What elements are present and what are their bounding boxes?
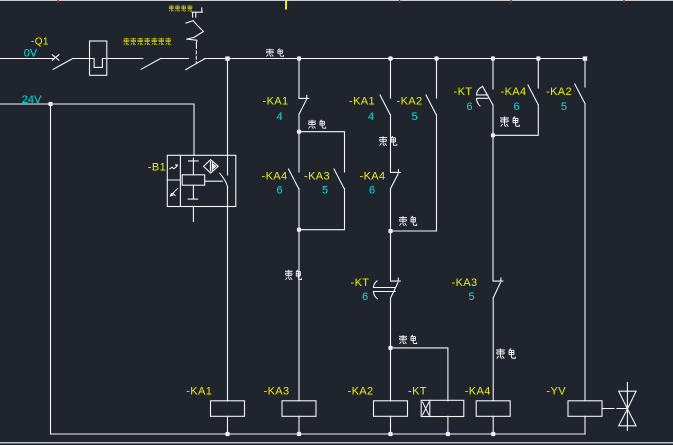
svg-text:-KT: -KT [351, 277, 370, 289]
svg-text:-KA2: -KA2 [546, 86, 572, 98]
svg-text:-B1: -B1 [148, 161, 166, 173]
svg-text:-KA1: -KA1 [186, 385, 212, 397]
svg-text:5: 5 [412, 111, 418, 123]
svg-text:4: 4 [277, 111, 283, 123]
svg-text:-KA3: -KA3 [264, 385, 290, 397]
svg-text:-KA1: -KA1 [263, 96, 289, 108]
svg-text:-KA4: -KA4 [262, 171, 288, 183]
svg-text:24V: 24V [22, 94, 42, 106]
svg-text:6: 6 [514, 101, 520, 113]
svg-text:6: 6 [362, 291, 368, 303]
svg-text:-KA2: -KA2 [348, 385, 374, 397]
svg-text:-KA4: -KA4 [465, 385, 491, 397]
svg-text:4: 4 [368, 111, 374, 123]
svg-text:-KA2: -KA2 [397, 96, 423, 108]
svg-text:-KT: -KT [408, 385, 427, 397]
svg-text:-YV: -YV [546, 385, 566, 397]
svg-text:-KA1: -KA1 [349, 96, 375, 108]
svg-text:5: 5 [561, 101, 567, 113]
svg-text:5: 5 [469, 291, 475, 303]
svg-text:6: 6 [467, 101, 473, 113]
svg-text:6: 6 [277, 184, 283, 196]
svg-text:6: 6 [369, 184, 375, 196]
svg-text:-KA3: -KA3 [452, 277, 478, 289]
svg-text:-KT: -KT [454, 86, 473, 98]
svg-text:-KA4: -KA4 [360, 171, 386, 183]
svg-text:-Q1: -Q1 [31, 36, 49, 47]
svg-text:-KA4: -KA4 [501, 86, 527, 98]
svg-text:0V: 0V [24, 48, 38, 60]
svg-text:5: 5 [322, 184, 328, 196]
svg-text:-KA3: -KA3 [304, 171, 330, 183]
